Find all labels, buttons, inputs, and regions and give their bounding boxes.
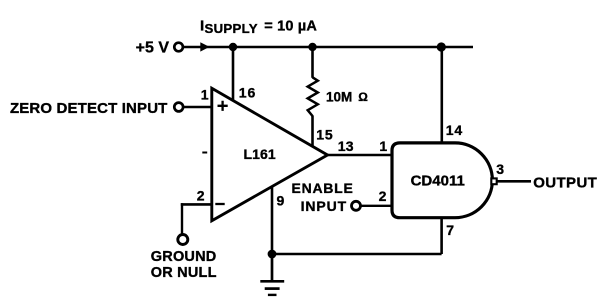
svg-text:3: 3	[496, 161, 504, 177]
svg-text:= 10 µA: = 10 µA	[264, 18, 317, 34]
minus input marker	[215, 203, 224, 205]
svg-text:SUPPLY: SUPPLY	[205, 21, 258, 36]
label GROUND OR NULL	[151, 249, 217, 281]
svg-text:INPUT: INPUT	[301, 198, 348, 214]
svg-text:7: 7	[446, 222, 454, 238]
svg-text:10M: 10M	[326, 90, 352, 105]
svg-text:13: 13	[338, 138, 354, 154]
terminal zero detect input	[174, 103, 183, 112]
label ISUPPLY = 10 uA	[200, 17, 317, 36]
wire U1 pin 13 output to gate U2 pin 1	[326, 154, 392, 157]
NAND gate U2 CD4011 body	[392, 143, 492, 218]
svg-text:15: 15	[316, 127, 333, 143]
wire U1 pin 2 vertical to ground/null terminal	[181, 203, 183, 234]
svg-text:9: 9	[277, 192, 285, 208]
svg-text:OR NULL: OR NULL	[151, 265, 217, 281]
terminal +5 V	[174, 43, 183, 52]
small dash left of triangle	[202, 152, 207, 154]
svg-text:1: 1	[201, 87, 209, 103]
current-direction arrow on supply wire	[200, 42, 209, 51]
svg-text:1: 1	[379, 138, 387, 154]
wire U1 pin 2 horizontal	[181, 203, 212, 206]
svg-text:CD4011: CD4011	[411, 172, 465, 189]
node V+ supply rail wire	[183, 46, 473, 49]
label ENABLE INPUT	[292, 180, 354, 214]
inverting output square bubble	[491, 178, 496, 184]
wire pin 16 of U1 to supply rail	[232, 47, 235, 100]
terminal ground or null	[178, 235, 188, 245]
svg-text:GROUND: GROUND	[151, 249, 217, 265]
svg-text:+5 V: +5 V	[136, 40, 170, 57]
wire zero detect input to U1 pin 1	[184, 106, 212, 109]
svg-text:ZERO DETECT INPUT: ZERO DETECT INPUT	[10, 100, 168, 117]
wire gate U2 pin 7 to ground net	[440, 218, 443, 254]
svg-text:OUTPUT: OUTPUT	[533, 175, 597, 192]
svg-text:ENABLE: ENABLE	[292, 180, 354, 196]
junction dot at pin16 branch	[229, 43, 237, 51]
svg-text:16: 16	[239, 84, 257, 100]
junction dot at pin14 branch	[437, 42, 446, 51]
junction dot ground net	[268, 250, 277, 259]
svg-text:2: 2	[197, 187, 205, 203]
op-amp U1 L161 triangle	[212, 88, 328, 220]
wire supply rail to resistor R1 top	[311, 47, 314, 78]
wire supply rail to gate U2 pin 14	[440, 47, 443, 142]
wire enable input to gate U2 pin 2	[362, 205, 393, 207]
wire resistor R1 bottom to U1 pin 15	[311, 116, 314, 146]
svg-text:14: 14	[446, 122, 463, 138]
wire gate U2 pin 3 to output terminal	[497, 180, 531, 183]
svg-text:2: 2	[379, 188, 387, 204]
plus input marker	[218, 101, 228, 111]
junction dot at resistor branch	[308, 43, 316, 51]
wire ground net horizontal to gate pin 7	[272, 253, 442, 256]
resistor R1 10M ohm	[308, 77, 318, 116]
svg-text:L161: L161	[244, 146, 276, 162]
terminal enable input	[352, 201, 361, 210]
wire U1 pin 9 down to ground net	[271, 187, 274, 255]
svg-text:Ω: Ω	[358, 90, 368, 104]
label 10M ohm	[326, 90, 368, 105]
ground symbol	[260, 254, 284, 295]
